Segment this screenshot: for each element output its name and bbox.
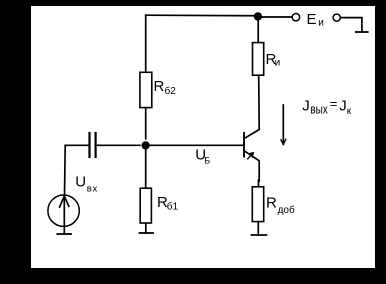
wire node down to Rб1: [145, 145, 147, 187]
svg-text:J: J: [302, 97, 310, 114]
source arrowhead: [60, 196, 65, 207]
svg-text:б1: б1: [167, 200, 179, 212]
ground under source: [57, 233, 71, 235]
source Uвх circle: [48, 195, 79, 226]
svg-text:и: и: [318, 18, 324, 29]
svg-text:б2: б2: [165, 85, 177, 97]
source arrow shaft: [63, 196, 65, 227]
wire Rб2 to base node: [145, 108, 147, 139]
svg-text:R: R: [266, 194, 277, 211]
svg-text:J: J: [339, 98, 347, 115]
wire top node to Rи: [257, 17, 259, 43]
resistor Rдоб: [252, 187, 263, 222]
svg-text:Б: Б: [204, 156, 210, 166]
svg-text:к: к: [347, 106, 352, 117]
svg-text:R: R: [154, 78, 165, 95]
wire emitter to Rдоб: [258, 180, 260, 186]
wire Rб1 to ground: [145, 224, 147, 233]
terminal circle Еи: [292, 14, 299, 21]
capacitor C plates: [88, 133, 90, 157]
resistor Rб2: [140, 72, 152, 107]
ground top right: [356, 31, 368, 33]
resistor Rб1: [140, 188, 151, 223]
current arrowhead: [281, 140, 283, 145]
wire top rail: [146, 14, 258, 17]
node top junction: [254, 12, 262, 20]
wire node to terminal: [258, 16, 292, 18]
wire node to capacitor: [97, 144, 140, 146]
transistor emitter: [244, 151, 259, 181]
wire corner down to source: [64, 145, 67, 196]
wire Rдоб to ground: [257, 222, 259, 235]
wire Rи to collector: [244, 76, 259, 139]
svg-text:=: =: [330, 96, 338, 111]
svg-text:вх: вх: [87, 184, 98, 195]
transistor emitter arrowhead: [248, 152, 254, 158]
svg-text:Е: Е: [307, 11, 317, 28]
transistor VT bar: [243, 133, 245, 157]
svg-text:и: и: [275, 58, 281, 69]
wire left vertical to Rb2: [145, 15, 147, 72]
svg-text:доб: доб: [278, 204, 295, 216]
wire source to ground: [63, 227, 65, 234]
terminal circle right: [333, 14, 340, 21]
ground under Rб1: [140, 232, 154, 234]
current arrow shaft: [282, 105, 284, 144]
svg-text:U: U: [75, 173, 86, 190]
svg-text:вых: вых: [310, 103, 328, 116]
ground under Rдоб: [252, 234, 267, 236]
wire terminal to ground: [340, 18, 362, 32]
wire corner to capacitor left: [66, 144, 89, 146]
resistor Rи: [253, 43, 264, 76]
wire base node to transistor base: [150, 144, 244, 146]
node base junction: [141, 141, 149, 149]
